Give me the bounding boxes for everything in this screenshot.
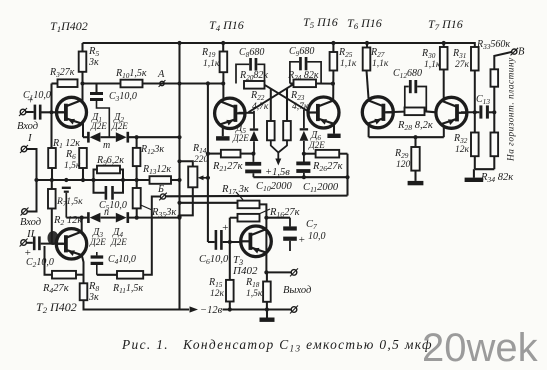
resistor R18 xyxy=(266,272,268,281)
resistor R28 xyxy=(405,108,425,116)
svg-text:220: 220 xyxy=(194,155,209,165)
wire diode row 2 middle xyxy=(101,217,116,219)
svg-text:R28 8,2к: R28 8,2к xyxy=(397,120,433,132)
wire diode row 1 xyxy=(101,136,116,138)
diode D2 xyxy=(127,132,130,143)
svg-text:120: 120 xyxy=(396,160,411,170)
wire main riser xyxy=(178,43,180,310)
wire T6/T7 emitter bus xyxy=(369,136,444,138)
svg-text:П402: П402 xyxy=(232,265,258,277)
svg-text:С610,0: С610,0 xyxy=(199,254,229,266)
transistor T4 ground xyxy=(222,127,224,137)
wire T6 base to R28 xyxy=(386,111,404,114)
wire T1 emitter xyxy=(82,122,84,138)
svg-text:Вход: Вход xyxy=(17,121,38,132)
capacitor C9 xyxy=(290,62,299,84)
wire to output upper terminal xyxy=(266,271,291,273)
resistor R16 xyxy=(238,214,260,222)
wire T2 collector to diode row 2 xyxy=(81,218,83,233)
capacitor C3 xyxy=(95,84,97,93)
svg-text:Рис. 1. Конденсатор С13 емко: Рис. 1. Конденсатор С13 емкостью 0,5 мкф xyxy=(121,337,433,354)
resistor R4 xyxy=(45,246,53,275)
svg-text:1,1к: 1,1к xyxy=(340,59,357,69)
svg-text:R96,2к: R96,2к xyxy=(96,155,124,167)
wire T6 emitter xyxy=(368,125,370,138)
svg-text:С310,0: С310,0 xyxy=(109,91,137,103)
capacitor C4 xyxy=(96,252,98,255)
wire C6 to T3 base xyxy=(223,241,241,243)
wire bottom right return xyxy=(475,168,495,170)
ink blob artifact xyxy=(48,231,59,245)
wire R8 to -12v rail xyxy=(84,300,190,309)
svg-text:R33560к: R33560к xyxy=(476,39,510,51)
resistor R13 xyxy=(150,176,172,184)
wire -12v rail right section xyxy=(223,308,292,310)
resistor R30 xyxy=(443,43,445,47)
diode D3 xyxy=(87,212,90,223)
svg-text:С110,0: С110,0 xyxy=(23,90,51,102)
node T1 collector junction xyxy=(80,81,84,85)
svg-text:Д2Е: Д2Е xyxy=(308,140,325,150)
input terminal Вход I lower xyxy=(21,146,27,152)
resistor R16 callout xyxy=(260,209,270,214)
svg-text:10,0: 10,0 xyxy=(308,231,326,242)
cross wire R20 to T5 base xyxy=(265,85,309,112)
node bus junctions xyxy=(34,178,38,182)
resistor R29 ground xyxy=(414,171,416,181)
svg-text:Т4 П16: Т4 П16 xyxy=(209,18,244,33)
wire C1 to T1 base xyxy=(42,111,64,113)
wire bias bus xyxy=(36,179,150,181)
svg-text:12к: 12к xyxy=(455,145,470,155)
svg-text:R111,5к: R111,5к xyxy=(112,283,143,295)
svg-text:Д2Е: Д2Е xyxy=(90,121,107,131)
svg-text:Вход: Вход xyxy=(20,217,41,228)
svg-text:R101,5к: R101,5к xyxy=(115,68,147,80)
capacitor C7 feed xyxy=(266,217,290,219)
svg-text:R1312к: R1312к xyxy=(142,164,171,176)
wire R14 bottom xyxy=(180,187,193,215)
svg-text:С9680: С9680 xyxy=(289,46,314,58)
resistor R8 xyxy=(80,283,88,300)
input terminal Вход II upper xyxy=(22,209,28,215)
capacitor C1 xyxy=(34,105,37,120)
wire node A to T4 collector xyxy=(180,82,224,84)
wire base riser to R3 xyxy=(50,84,52,113)
resistor R3 xyxy=(52,82,58,84)
svg-text:−12в: −12в xyxy=(200,305,223,316)
svg-text:С210,0: С210,0 xyxy=(26,257,54,269)
svg-text:4,7к: 4,7к xyxy=(292,102,309,112)
resistor R11 xyxy=(97,274,117,276)
input terminal Вход I upper xyxy=(20,109,26,115)
svg-text:3к: 3к xyxy=(88,57,99,68)
transistor T1 xyxy=(57,97,87,127)
svg-text:С102000: С102000 xyxy=(256,181,292,193)
right ground xyxy=(473,169,475,177)
wire R18 bottom xyxy=(266,302,268,310)
svg-text:С112000: С112000 xyxy=(303,182,339,194)
svg-text:R34 82к: R34 82к xyxy=(480,172,513,184)
capacitor C10 xyxy=(252,154,254,162)
wire A-node dropper xyxy=(207,84,209,243)
capacitor C8 xyxy=(236,64,249,83)
wire input I to C1 xyxy=(26,111,34,113)
potentiometer R14 wiper arrow xyxy=(201,177,208,179)
svg-text:R427к: R427к xyxy=(42,283,69,295)
svg-text:1,5к: 1,5к xyxy=(246,289,263,299)
resistor R9 parallel branch xyxy=(94,170,98,181)
wire bus to riser xyxy=(171,179,180,181)
wire top supply rail xyxy=(83,42,474,44)
capacitor C13 xyxy=(479,105,482,118)
potentiometer R14 xyxy=(188,167,197,188)
transistor T4 xyxy=(215,98,245,128)
capacitor C11 xyxy=(303,154,305,162)
capacitor at bus tap xyxy=(62,187,71,189)
resistor R19 xyxy=(222,43,224,52)
svg-text:Т5 П16: Т5 П16 xyxy=(303,15,338,30)
diode D1 xyxy=(83,136,88,138)
transistor T2 xyxy=(56,229,86,259)
svg-text:1,1к: 1,1к xyxy=(372,59,389,69)
svg-text:Т6 П16: Т6 П16 xyxy=(347,16,382,31)
capacitor C2 xyxy=(33,236,36,250)
resistor R27 xyxy=(366,43,368,48)
output ground xyxy=(266,310,268,318)
resistor R32 xyxy=(471,133,479,157)
wire T4 base lead xyxy=(239,112,255,114)
resistor R7 xyxy=(51,180,53,189)
svg-text:1,1к: 1,1к xyxy=(203,59,220,69)
svg-text:R327к: R327к xyxy=(49,67,75,79)
resistor R35 callout xyxy=(141,205,152,210)
transistor T6 xyxy=(362,97,393,128)
svg-text:12к: 12к xyxy=(210,289,225,299)
svg-text:27к: 27к xyxy=(455,60,470,70)
resistor R29 xyxy=(414,137,416,147)
wire common +1.5v return xyxy=(253,176,347,178)
svg-text:В: В xyxy=(518,47,525,58)
diode D5 xyxy=(253,111,255,129)
node T3 collector xyxy=(264,270,268,274)
svg-text:+: + xyxy=(298,234,305,246)
cross wire R24 to T4 base xyxy=(249,84,294,112)
output terminal lower xyxy=(291,307,297,313)
svg-text:Выход: Выход xyxy=(283,285,311,296)
transistor T5 xyxy=(308,97,339,128)
wire input II lower to C2 xyxy=(27,242,33,244)
resistor R25 xyxy=(332,43,334,52)
svg-text:На горизонт. пластину: На горизонт. пластину xyxy=(507,57,517,162)
svg-text:Б: Б xyxy=(157,184,164,195)
svg-text:п: п xyxy=(104,207,109,218)
wire T1 collector xyxy=(82,84,84,103)
resistor R23 xyxy=(286,88,288,121)
svg-text:С8680: С8680 xyxy=(239,47,264,59)
svg-text:Д2Е: Д2Е xyxy=(89,237,106,247)
resistor R31 xyxy=(474,43,475,47)
wire D2 to riser xyxy=(128,136,180,138)
svg-text:+1,5в: +1,5в xyxy=(265,167,290,178)
wire R11 to node B riser xyxy=(143,197,160,275)
resistor R12 xyxy=(136,137,138,148)
resistor R35 xyxy=(133,188,141,208)
svg-text:20wek: 20wek xyxy=(422,326,539,370)
svg-text:m: m xyxy=(103,140,110,151)
wire riser to R14 top xyxy=(180,161,193,166)
svg-text:R71,5к: R71,5к xyxy=(56,197,83,208)
wire T7 emitter xyxy=(443,127,445,138)
wire R26 return riser xyxy=(346,154,348,196)
supply arrow +1.5v xyxy=(271,140,279,152)
resistor R15 xyxy=(226,280,234,302)
resistor R5 xyxy=(81,43,83,52)
wire input I lower to bus xyxy=(27,149,37,180)
resistor R34 xyxy=(493,112,495,132)
terminal B output xyxy=(512,49,517,54)
svg-text:R2082к: R2082к xyxy=(239,70,268,82)
arrow -12v xyxy=(190,306,199,312)
resistor R20 xyxy=(244,81,265,89)
diode D4 xyxy=(127,212,130,223)
svg-text:R24 82к: R24 82к xyxy=(287,70,319,82)
svg-text:Д2Е: Д2Е xyxy=(111,121,128,131)
input terminal Вход II lower xyxy=(21,240,27,246)
resistor R1 xyxy=(50,112,52,148)
node rail junction dots xyxy=(177,41,181,45)
capacitor C6 xyxy=(208,241,215,243)
resistor R16 left lead xyxy=(230,217,238,219)
wire input II upper xyxy=(28,180,37,212)
resistor R21 xyxy=(208,153,221,155)
svg-text:3к: 3к xyxy=(88,292,99,303)
wire diode row 2 right xyxy=(128,217,180,219)
diode D6 xyxy=(303,110,305,129)
wire R17 feed xyxy=(180,202,238,204)
resistor R10 xyxy=(83,82,121,84)
svg-text:Т2 П402: Т2 П402 xyxy=(36,300,77,315)
resistor R22 xyxy=(270,89,272,121)
resistor R26 xyxy=(304,153,316,155)
svg-text:С410,0: С410,0 xyxy=(108,254,136,266)
svg-text:R2127к: R2127к xyxy=(212,161,243,173)
resistor R6 xyxy=(79,148,87,168)
wire T7 collector to C13 xyxy=(461,111,479,113)
diode row 2 wire left xyxy=(66,217,88,219)
resistor R17 callout xyxy=(236,192,243,200)
wire C2 to T2 base xyxy=(41,243,64,245)
capacitor C7 xyxy=(289,218,291,227)
output terminal upper xyxy=(291,270,297,276)
svg-text:1,5к: 1,5к xyxy=(64,161,81,171)
node B terminal xyxy=(160,194,165,199)
svg-text:С12680: С12680 xyxy=(393,68,422,80)
svg-text:Т1П402: Т1П402 xyxy=(50,19,88,34)
wire T2 emitter to R8 xyxy=(82,255,84,283)
resistor R17 xyxy=(238,201,260,209)
svg-text:R2627к: R2627к xyxy=(312,161,343,173)
svg-text:А: А xyxy=(157,69,165,80)
transistor T7 xyxy=(436,97,467,128)
resistor R17 right lead xyxy=(260,204,267,272)
transistor T3 xyxy=(241,226,272,257)
wire T3 base riser xyxy=(229,218,231,280)
node A xyxy=(160,81,164,85)
capacitor C5 branch xyxy=(94,180,105,193)
svg-text:Т7 П16: Т7 П16 xyxy=(428,17,463,32)
svg-text:Д2Е: Д2Е xyxy=(110,237,127,247)
svg-text:Д2Е: Д2Е xyxy=(232,133,249,143)
svg-text:4,7к: 4,7к xyxy=(252,102,269,112)
resistor R24 xyxy=(290,82,294,84)
transistor T5 ground xyxy=(333,125,335,134)
wire node B bus xyxy=(166,195,348,198)
svg-text:+: + xyxy=(222,222,229,234)
svg-text:1,1к: 1,1к xyxy=(424,60,441,70)
node T1 base junction xyxy=(49,110,53,114)
resistor R33 xyxy=(493,87,495,113)
capacitor C12 xyxy=(405,87,409,108)
